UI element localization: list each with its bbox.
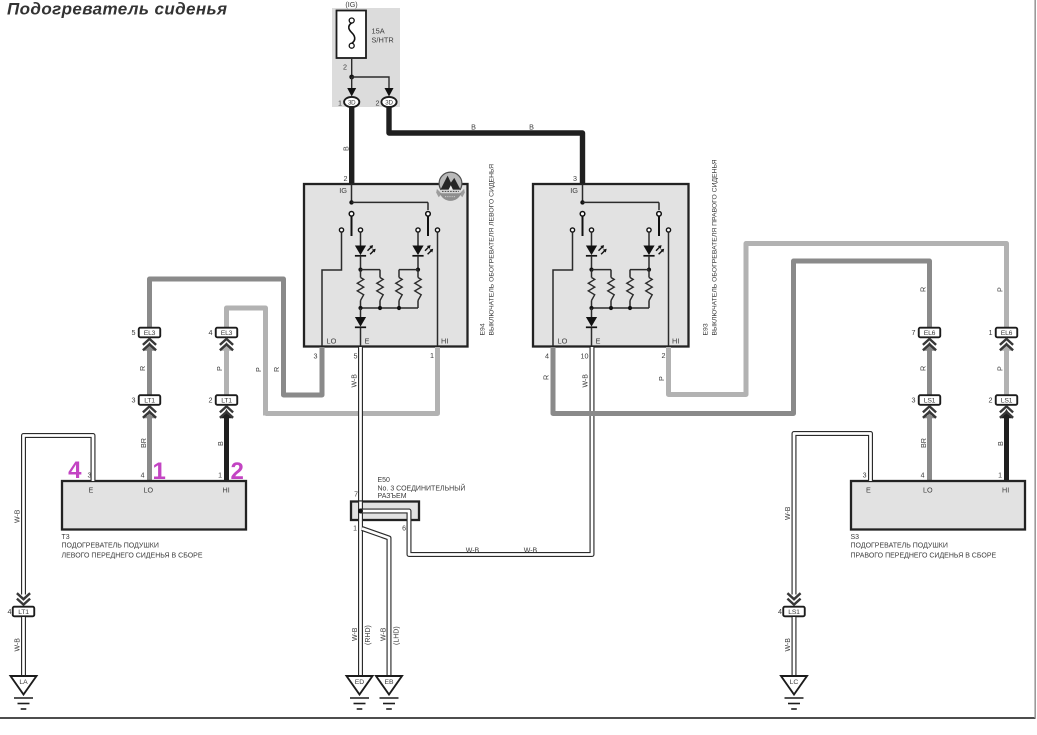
svg-text:LT1: LT1 [221,398,232,405]
svg-text:W-B: W-B [524,548,538,555]
svg-text:P: P [996,366,1005,371]
svg-text:P: P [996,287,1005,292]
svg-text:Подогреватель сиденья: Подогреватель сиденья [7,0,227,19]
svg-text:EL3: EL3 [221,330,233,337]
wire R right switch LO to EL6-7 [553,261,930,414]
svg-text:3: 3 [573,174,577,183]
svg-text:(RHD): (RHD) [365,625,372,645]
svg-text:LA: LA [19,679,28,686]
svg-text:R: R [919,287,928,292]
svg-text:2: 2 [343,63,347,72]
wire P EL3 to LT1 [224,348,229,395]
ground EB [376,676,402,695]
svg-text:W-B: W-B [352,374,359,388]
svg-text:LT1: LT1 [144,398,155,405]
svg-text:R: R [138,366,147,371]
svg-text:LT1: LT1 [18,609,29,616]
connector EL6 pin 7 [919,328,941,338]
svg-text:10: 10 [581,352,589,361]
svg-text:LS1: LS1 [1001,398,1013,405]
ground LA [11,676,37,695]
svg-text:W-B: W-B [583,374,590,388]
arrow into connector 1 [347,88,356,97]
svg-text:E94: E94 [480,323,487,335]
svg-text:ЛЕВОГО ПЕРЕДНЕГО СИДЕНЬЯ В СБО: ЛЕВОГО ПЕРЕДНЕГО СИДЕНЬЯ В СБОРЕ [62,553,203,560]
svg-text:BR: BR [919,438,928,448]
svg-text:LC: LC [790,679,799,686]
svg-text:2: 2 [344,174,348,183]
junction node dot [349,75,354,80]
svg-text:1: 1 [989,328,993,337]
svg-text:2: 2 [209,396,213,405]
svg-text:IG: IG [570,186,578,195]
wire W-B E50 pin1 to ED [358,520,363,676]
connector LS1 pin 2 [996,395,1018,405]
connector EL3 pin 5 [139,328,161,338]
svg-text:ВЫКЛЮЧАТЕЛЬ ОБОГРЕВАТЕЛЯ ПРАВО: ВЫКЛЮЧАТЕЛЬ ОБОГРЕВАТЕЛЯ ПРАВОГО СИДЕНЬЯ [712,159,719,335]
connector 3D pin 1 oval [344,97,359,107]
svg-text:1: 1 [338,98,342,107]
svg-text:LO: LO [144,486,154,495]
LT1-2 plug chevrons [221,409,231,418]
wire BR LT1 to heater LO [147,415,152,481]
wire B to left switch IG [349,106,354,184]
wire P vertical segment [227,308,266,416]
svg-text:2: 2 [376,98,380,107]
svg-text:R: R [272,367,281,372]
svg-text:E: E [89,486,94,495]
svg-text:2: 2 [662,351,666,360]
LT1-3 plug chevrons [144,409,154,418]
svg-text:R: R [542,375,551,380]
svg-text:5: 5 [354,352,358,361]
heater S3 box [851,481,1025,530]
wire R EL6 to LS1 [927,348,932,395]
page right border [1034,0,1036,718]
svg-text:W-B: W-B [785,638,792,652]
heater switch E93 box [533,184,689,347]
svg-text:P: P [657,376,666,381]
fuse block shaded area [332,8,400,107]
connector EL3 pin 4 [216,328,238,338]
svg-text:HI: HI [441,337,448,346]
LS1-2 plug chevrons [1001,409,1011,418]
svg-text:ПОДОГРЕВАТЕЛЬ ПОДУШКИ: ПОДОГРЕВАТЕЛЬ ПОДУШКИ [62,543,159,550]
svg-text:B: B [996,441,1005,446]
wire BR LS1 to heater LO [927,415,932,481]
svg-text:W-B: W-B [466,548,480,555]
wire fuse to junction [351,58,353,77]
wire B LT1 to heater HI [224,415,229,481]
EL6-7 plug chevrons [924,342,934,351]
watermark badge logo [439,172,462,195]
svg-text:W-B: W-B [352,627,359,641]
wire junction to right branch [352,77,389,88]
wire W-B heater S3 E to ground path [794,434,871,595]
svg-text:EL3: EL3 [144,330,156,337]
wire R EL3 to LT1 [147,348,152,395]
wire junction down [351,77,353,88]
E50 node dot [358,509,363,514]
svg-text:1: 1 [998,473,1002,480]
connector LT1 pin 3 [139,395,161,405]
svg-text:4: 4 [68,457,82,484]
svg-text:ВЫКЛЮЧАТЕЛЬ ОБОГРЕВАТЕЛЯ ЛЕВОГ: ВЫКЛЮЧАТЕЛЬ ОБОГРЕВАТЕЛЯ ЛЕВОГО СИДЕНЬЯ [489,164,496,336]
svg-text:2: 2 [989,396,993,405]
EL6-1 plug chevrons [1001,342,1011,351]
svg-text:EB: EB [384,679,394,686]
wire P left switch HI to EL3-4 [266,347,438,414]
wire W-B left switch E to E50 pin7 [358,347,363,502]
fuse element symbol [349,23,355,44]
svg-text:P: P [254,367,263,372]
svg-text:РАЗЪЕМ: РАЗЪЕМ [378,493,407,500]
left switch internal circuit [322,184,440,346]
svg-text:W-B: W-B [15,509,22,523]
svg-text:LS1: LS1 [924,398,936,405]
svg-text:E: E [866,486,871,495]
svg-text:No. 3 СОЕДИНИТЕЛЬНЫЙ: No. 3 СОЕДИНИТЕЛЬНЫЙ [378,484,466,493]
svg-text:ПРАВОГО ПЕРЕДНЕГО СИДЕНЬЯ В СБ: ПРАВОГО ПЕРЕДНЕГО СИДЕНЬЯ В СБОРЕ [851,553,997,560]
svg-text:EL6: EL6 [924,330,936,337]
svg-text:W-B: W-B [785,506,792,520]
svg-text:E: E [365,337,370,346]
svg-text:2: 2 [231,458,244,485]
svg-text:BR: BR [139,438,148,448]
svg-text:IG: IG [339,186,347,195]
ground LC [781,676,807,695]
svg-text:7: 7 [912,328,916,337]
svg-text:5: 5 [132,328,136,337]
wire W-B LS1 to ground [792,617,797,676]
svg-text:4: 4 [921,473,925,480]
svg-text:LO: LO [558,337,568,346]
right switch internal circuit [553,184,671,346]
connector 3D pin 2 oval [381,97,396,107]
wire W-B LT1 to ground [21,617,26,676]
svg-text:HI: HI [223,486,230,495]
svg-text:B: B [471,123,476,132]
wire P right switch HI to EL6-1 [669,244,1007,395]
svg-text:B: B [529,123,534,132]
svg-text:4: 4 [209,328,213,337]
svg-text:B: B [216,441,225,446]
connector EL6 pin 1 [996,328,1018,338]
LT1 ground chevrons [17,599,30,605]
svg-text:E: E [596,337,601,346]
svg-text:W-B: W-B [381,627,388,641]
svg-text:4: 4 [778,607,782,616]
connector LT1 pin 2 [216,395,238,405]
svg-text:S/HTR: S/HTR [372,36,394,45]
svg-text:6: 6 [402,526,406,533]
connector LT1 pin 4 (ground) [13,607,35,617]
EL3-4 plug chevrons [221,342,231,351]
svg-text:1: 1 [430,351,434,360]
wire B LS1 to heater HI [1004,415,1009,481]
connector LS1 pin 3 [919,395,941,405]
svg-text:LO: LO [923,486,933,495]
junction connector E50 box [351,502,419,521]
svg-text:E50: E50 [378,477,391,484]
svg-text:7: 7 [354,492,358,499]
svg-text:1: 1 [153,458,166,485]
svg-text:3: 3 [314,352,318,361]
svg-text:3: 3 [863,473,867,480]
wire W-B E50 pin6 to right switch E [409,347,592,555]
heater switch E94 box [304,184,468,347]
EL3-5 plug chevrons [144,342,154,351]
wire P EL6 to LS1 [1004,348,1009,395]
svg-text:T3: T3 [62,534,70,541]
svg-text:4: 4 [8,607,12,616]
E50 internal bus [358,502,363,521]
svg-text:LO: LO [327,337,337,346]
svg-text:B: B [342,146,351,151]
svg-text:(LHD): (LHD) [394,626,401,645]
wire W-B heater E to ground path [24,436,94,595]
wire B to right switch IG [389,106,583,184]
svg-text:4: 4 [545,352,549,361]
svg-text:3: 3 [132,396,136,405]
svg-text:R: R [919,366,928,371]
svg-text:(IG): (IG) [345,0,357,9]
svg-text:P: P [215,366,224,371]
svg-text:1: 1 [218,473,222,480]
svg-text:E93: E93 [703,323,710,335]
svg-text:ПОДОГРЕВАТЕЛЬ ПОДУШКИ: ПОДОГРЕВАТЕЛЬ ПОДУШКИ [851,543,948,550]
svg-text:15A: 15A [372,27,385,36]
svg-text:LS1: LS1 [788,609,800,616]
svg-text:HI: HI [1002,486,1009,495]
svg-text:ED: ED [355,679,365,686]
svg-text:EL6: EL6 [1001,330,1013,337]
svg-text:W-B: W-B [15,638,22,652]
arrow into connector 2 [385,88,394,97]
svg-text:3: 3 [912,396,916,405]
LS1 ground chevrons [787,599,800,605]
svg-text:3D: 3D [348,100,356,107]
LS1-3 plug chevrons [924,409,934,418]
page bottom border [0,717,1036,719]
svg-text:3D: 3D [385,100,393,107]
heater T3 box [62,481,246,530]
svg-text:4: 4 [141,473,145,480]
connector LS1 pin 4 (ground) [783,607,805,617]
svg-text:1: 1 [353,526,357,533]
svg-text:S3: S3 [851,534,860,541]
svg-text:HI: HI [672,337,679,346]
ground ED [347,676,373,695]
wire R left switch LO to EL3-5 [150,279,323,395]
wire W-B branch to EB [362,529,389,677]
fuse F1 15A S/HTR box [337,11,367,59]
